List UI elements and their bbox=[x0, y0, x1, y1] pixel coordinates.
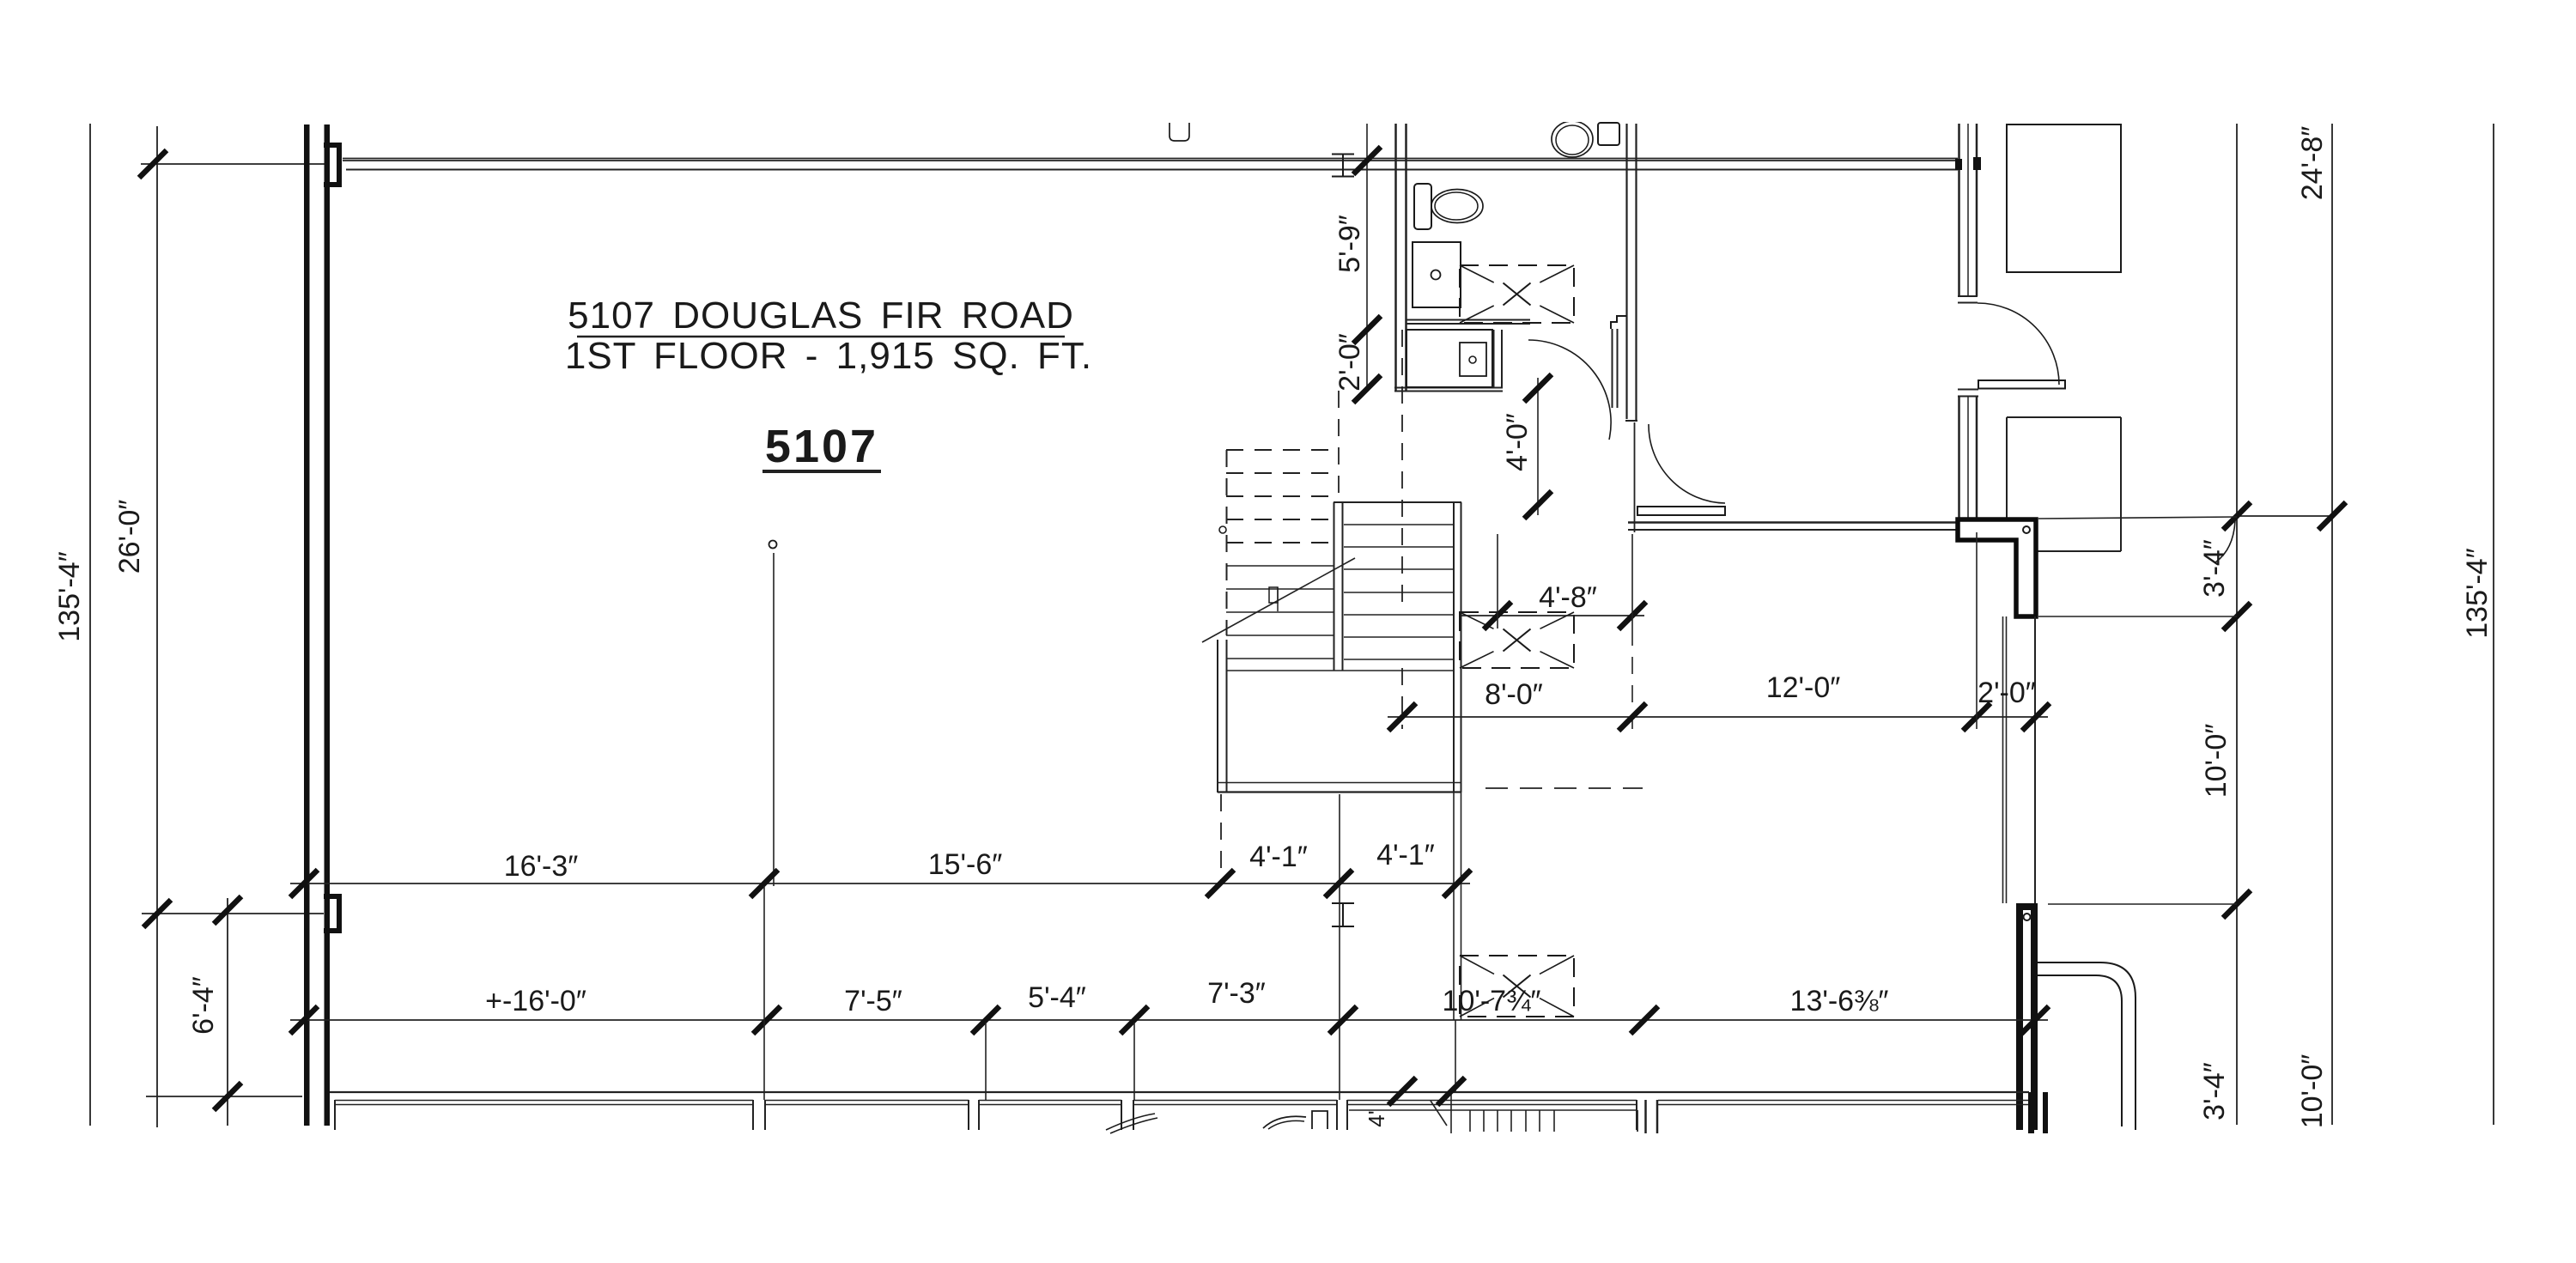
tick 8-0 left bbox=[1388, 703, 1416, 731]
sink drain bbox=[1431, 270, 1441, 280]
tick 26-0 bottom bbox=[143, 900, 171, 927]
bathroom south wall b bbox=[1394, 391, 1503, 392]
stair break line bbox=[1202, 558, 1355, 642]
tick bottom wall b bbox=[1437, 1078, 1465, 1105]
fixture drop line bbox=[773, 553, 775, 886]
tick 4-1 right bbox=[1443, 870, 1471, 897]
stair wall extension a bbox=[1453, 792, 1455, 1020]
tick 26-0 top bbox=[139, 150, 167, 178]
svg-text:7'-3″: 7'-3″ bbox=[1207, 977, 1266, 1010]
svg-text:5'-4″: 5'-4″ bbox=[1028, 981, 1086, 1014]
bottom stub b bbox=[2043, 1092, 2048, 1133]
stair treads left flight dashed (up) bbox=[1226, 449, 1334, 451]
stair wall extension b bbox=[1461, 792, 1462, 1020]
tick 16-3 left bbox=[290, 870, 318, 897]
tick 6-4 bottom bbox=[214, 1083, 241, 1110]
tick 10-7 right bbox=[1631, 1006, 1658, 1034]
east door swing arc bbox=[1978, 303, 2059, 385]
tick 4-0 bottom bbox=[1524, 491, 1552, 519]
dashed line xbox to dim bbox=[1401, 668, 1403, 729]
mirrored unit stair edge bbox=[1349, 1109, 1637, 1111]
mirrored unit door arc (cut) bbox=[1106, 1114, 1155, 1130]
tick 5-9 top bbox=[1353, 147, 1381, 174]
svg-text:5107: 5107 bbox=[765, 421, 878, 472]
svg-text:1ST FLOOR - 1,915 SQ. FT.: 1ST FLOOR - 1,915 SQ. FT. bbox=[565, 335, 1092, 377]
extension 4-8 right bbox=[1631, 534, 1633, 628]
door jamb step bbox=[1611, 316, 1626, 329]
dim line 6-4 left bbox=[227, 898, 228, 1126]
tick 7-5 right bbox=[972, 1006, 999, 1034]
section mark below stairs bbox=[1342, 903, 1344, 926]
extension x1148 bbox=[985, 1023, 987, 1100]
east wall upper mid line bbox=[1967, 124, 1969, 296]
bathroom mid divider a bbox=[1406, 319, 1530, 321]
extension wall to dim y603 bbox=[2038, 517, 2237, 519]
shower X-box stair right bbox=[1460, 612, 1574, 668]
stair wall extension c bbox=[1455, 1020, 1456, 1091]
dim chain y1029 bbox=[290, 883, 1470, 884]
middle wall cap bbox=[1625, 420, 1637, 422]
svg-text:15'-6″: 15'-6″ bbox=[928, 848, 1003, 881]
svg-text:3'-4″: 3'-4″ bbox=[2198, 539, 2231, 598]
svg-text:5'-9″: 5'-9″ bbox=[1334, 215, 1366, 273]
tick 12-0 right bbox=[1963, 703, 1990, 731]
dim line right outer bbox=[2493, 124, 2494, 1125]
svg-text:135'-4″: 135'-4″ bbox=[53, 551, 86, 642]
tick 7-3 right bbox=[1329, 1006, 1357, 1034]
mirrored unit toilet (cut) bbox=[1263, 1116, 1306, 1128]
dim line right mid bbox=[2331, 124, 2333, 1125]
bathroom left wall outer bbox=[1394, 124, 1397, 391]
middle south wall a bbox=[1628, 521, 1958, 524]
wall pilaster bottom bbox=[324, 894, 342, 899]
mullion pair b bbox=[1656, 1100, 1659, 1133]
stair stringer bbox=[1334, 502, 1335, 671]
dashed line below stairs bbox=[1485, 787, 1643, 789]
lower wall anchor circle bbox=[2024, 914, 2031, 920]
shower X-box bottom bbox=[1460, 956, 1574, 1017]
stair treads left flight solid bbox=[1226, 565, 1334, 567]
dim line top-left horizontal bbox=[141, 163, 325, 165]
closet rectangle upper bbox=[2007, 124, 2121, 272]
vanity right wall b bbox=[1501, 330, 1503, 387]
closet rectangle lower bbox=[2007, 416, 2121, 418]
extension stair center bbox=[1339, 794, 1340, 1100]
svg-text:2'-0″: 2'-0″ bbox=[1334, 333, 1366, 392]
tick right 601a bbox=[2223, 502, 2251, 530]
tick right 601b bbox=[2318, 502, 2346, 530]
tick 4-8 right bbox=[1619, 602, 1646, 629]
middle south wall b bbox=[1628, 529, 1958, 531]
stair small circle bbox=[1219, 526, 1226, 533]
vanity right wall a bbox=[1493, 330, 1495, 387]
svg-text:12'-0″: 12'-0″ bbox=[1766, 671, 1841, 704]
svg-text:4'-1″: 4'-1″ bbox=[1376, 839, 1435, 871]
toilet tank bbox=[1414, 184, 1431, 229]
tick 16-0 right bbox=[753, 1006, 781, 1034]
extension x890 bbox=[763, 886, 765, 1100]
stair treads right flight bbox=[1344, 524, 1453, 525]
hall door swing arc bbox=[1649, 424, 1725, 503]
svg-text:3'-4″: 3'-4″ bbox=[2198, 1062, 2231, 1120]
svg-text:4'-8″: 4'-8″ bbox=[1539, 581, 1597, 614]
svg-text:10'-7¾″: 10'-7¾″ bbox=[1443, 985, 1541, 1017]
bottom stub a bbox=[2028, 1092, 2034, 1133]
svg-text:135'-4″: 135'-4″ bbox=[2461, 548, 2494, 639]
tick 15-6 right bbox=[1206, 870, 1234, 897]
right window frame line bbox=[2034, 616, 2036, 903]
lower right thick wall bbox=[2016, 903, 2038, 910]
east wall mid cap a bbox=[1958, 389, 1978, 391]
top wall inner line bbox=[346, 169, 1958, 171]
tick 4-1 mid bbox=[1325, 870, 1352, 897]
extension wall to dim y1053 bbox=[2048, 903, 2237, 905]
east wall mid mid line bbox=[1967, 397, 1969, 519]
bathroom door swing arc bbox=[1528, 340, 1611, 440]
middle wall east face bbox=[1635, 124, 1637, 421]
bottom wall window channels bbox=[335, 1100, 753, 1102]
tick right 1053 bbox=[2223, 890, 2251, 918]
svg-text:+-16'-0″: +-16'-0″ bbox=[485, 985, 586, 1017]
svg-text:10'-0″: 10'-0″ bbox=[2200, 724, 2233, 798]
dim line 26-0 left bbox=[156, 126, 158, 1127]
tick 13-6 right bbox=[2021, 1006, 2049, 1034]
tick 2-0 right bbox=[2022, 703, 2050, 731]
extension x2302 bbox=[1976, 532, 1978, 729]
L wall anchor circle bbox=[2023, 526, 2030, 533]
east wall upper east face bbox=[1976, 124, 1978, 296]
wall pilaster top bbox=[324, 143, 342, 148]
east wall upper cap a bbox=[1958, 295, 1978, 297]
top wall line b bbox=[343, 160, 1958, 161]
bathroom south wall a bbox=[1394, 387, 1503, 389]
leader arc 3-4 bbox=[2215, 521, 2235, 562]
dim line y1064 horizontal bbox=[142, 913, 324, 914]
east wall mid cap b bbox=[1958, 396, 1978, 398]
svg-text:6'-4″: 6'-4″ bbox=[187, 976, 220, 1035]
bottom wall top line bbox=[330, 1091, 2029, 1093]
dashed line bath to xbox bbox=[1401, 330, 1403, 612]
svg-text:2'-0″: 2'-0″ bbox=[1978, 677, 2036, 709]
tick 8-0 right bbox=[1619, 703, 1646, 731]
extension x1321 bbox=[1133, 1023, 1135, 1100]
stair flag symbol bbox=[1269, 587, 1278, 603]
east door leaf bbox=[1978, 380, 2065, 389]
dim line 4-0 bbox=[1537, 378, 1539, 515]
svg-text:4'-0″: 4'-0″ bbox=[1501, 413, 1534, 471]
dim connector 3-4 horizontal bbox=[2237, 515, 2332, 517]
right window glazing b bbox=[2006, 616, 2008, 903]
dim line 4-8 bbox=[1461, 615, 1644, 616]
svg-text:5107 DOUGLAS FIR ROAD: 5107 DOUGLAS FIR ROAD bbox=[568, 294, 1074, 337]
sink vanity bbox=[1413, 242, 1461, 307]
tick 2-0 bottom bbox=[1353, 375, 1381, 403]
tick 6-4 top bbox=[214, 896, 241, 924]
small diagonal mark bbox=[1431, 1101, 1447, 1126]
upper unit toilet tank bbox=[1598, 123, 1619, 145]
svg-text:16'-3″: 16'-3″ bbox=[504, 850, 579, 883]
tick 5-9 bottom bbox=[1353, 316, 1381, 343]
east wall upper west face bbox=[1958, 124, 1960, 296]
svg-text:4'-1″: 4'-1″ bbox=[1249, 841, 1308, 873]
stair right wall bbox=[1453, 502, 1455, 792]
lower sink basin bbox=[1460, 343, 1486, 376]
tick 4-0 top bbox=[1524, 374, 1552, 402]
counter rail curve bbox=[2038, 962, 2136, 1130]
toilet bowl outer bbox=[1431, 190, 1483, 223]
south wall west jamb bbox=[1634, 422, 1636, 532]
svg-text:13'-6⅜″: 13'-6⅜″ bbox=[1790, 985, 1889, 1017]
mirrored unit stair treads (cut) bbox=[1469, 1110, 1471, 1132]
extension dashed x1901 bbox=[1631, 628, 1633, 729]
thick L wall bbox=[1958, 519, 2036, 616]
stair top edge bbox=[1334, 501, 1461, 503]
stair landing bbox=[1217, 640, 1218, 792]
right window glazing a bbox=[2002, 616, 2004, 903]
svg-text:24'-8″: 24'-8″ bbox=[2296, 126, 2329, 201]
dashed line bath to stair bbox=[1338, 391, 1340, 502]
column block a bbox=[1955, 159, 1962, 170]
tick 16-3 right bbox=[750, 870, 778, 897]
extension 4-8 left bbox=[1497, 534, 1498, 628]
lower vanity cabinet bbox=[1406, 330, 1492, 387]
bathroom left wall inner bbox=[1405, 124, 1407, 391]
section mark top wall bbox=[1342, 155, 1344, 177]
dim line y1277 horizontal bbox=[146, 1096, 302, 1097]
hall door leaf bbox=[1637, 507, 1725, 515]
toilet bowl inner bbox=[1435, 192, 1478, 220]
unit number underline bbox=[762, 470, 881, 473]
tick 4-8 left bbox=[1484, 602, 1511, 629]
east wall mid east face bbox=[1976, 397, 1978, 519]
ceiling fixture circle bbox=[769, 541, 777, 549]
extension x1690 bbox=[1450, 1091, 1452, 1133]
svg-text:10'-0″: 10'-0″ bbox=[2296, 1054, 2329, 1129]
dim chain y1188 bbox=[290, 1019, 2048, 1021]
dim chain y835 bbox=[1388, 716, 2048, 718]
svg-text:4': 4' bbox=[1364, 1110, 1389, 1126]
dashed extension landing bbox=[1220, 794, 1222, 883]
left exterior wall outer face bbox=[304, 124, 310, 1126]
dim extension x1592 bbox=[1366, 124, 1368, 391]
title underline bbox=[577, 336, 1065, 338]
top wall line a bbox=[343, 158, 1958, 160]
dim extension line 135-4 left bbox=[89, 124, 91, 1126]
mullion pair a bbox=[1644, 1100, 1647, 1133]
svg-text:7'-5″: 7'-5″ bbox=[844, 985, 902, 1017]
window jambs bbox=[334, 1100, 336, 1130]
extension wall to dim y718 bbox=[2038, 616, 2237, 617]
bathroom mid divider b bbox=[1406, 323, 1530, 325]
dim line right inner bbox=[2236, 124, 2238, 1125]
upper unit fixture (cut) bbox=[1170, 123, 1189, 141]
left exterior wall inner face bbox=[325, 124, 331, 1126]
lower sink drain bbox=[1469, 356, 1476, 363]
middle wall west face bbox=[1625, 124, 1627, 419]
tick right 718 bbox=[2223, 603, 2251, 630]
svg-text:8'-0″: 8'-0″ bbox=[1485, 678, 1543, 711]
tick 5-4 right bbox=[1121, 1006, 1148, 1034]
shower X-box bathroom bbox=[1460, 265, 1574, 323]
upper unit toilet bowl (cut by crop) bbox=[1552, 121, 1593, 157]
stair left dashed edge bbox=[1226, 450, 1228, 635]
east wall upper cap b bbox=[1958, 302, 1978, 304]
tick 16-0 left bbox=[290, 1006, 318, 1034]
tick bottom wall a bbox=[1388, 1078, 1416, 1105]
svg-text:26'-0″: 26'-0″ bbox=[113, 500, 146, 574]
column block b bbox=[1973, 157, 1981, 170]
east wall mid west face bbox=[1958, 397, 1960, 519]
door lining a bbox=[1612, 329, 1613, 408]
door lining b bbox=[1617, 329, 1619, 408]
